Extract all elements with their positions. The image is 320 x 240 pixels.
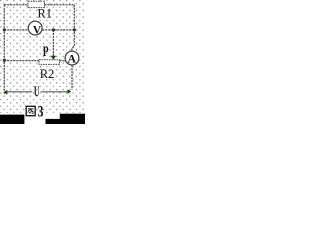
svg-text:V: V (33, 22, 42, 36)
svg-text:3: 3 (38, 103, 44, 120)
svg-text:R1: R1 (37, 7, 52, 21)
svg-text:U: U (34, 84, 40, 100)
svg-text:R2: R2 (40, 67, 55, 81)
svg-text:P: P (43, 44, 49, 60)
svg-text:A: A (68, 52, 77, 66)
